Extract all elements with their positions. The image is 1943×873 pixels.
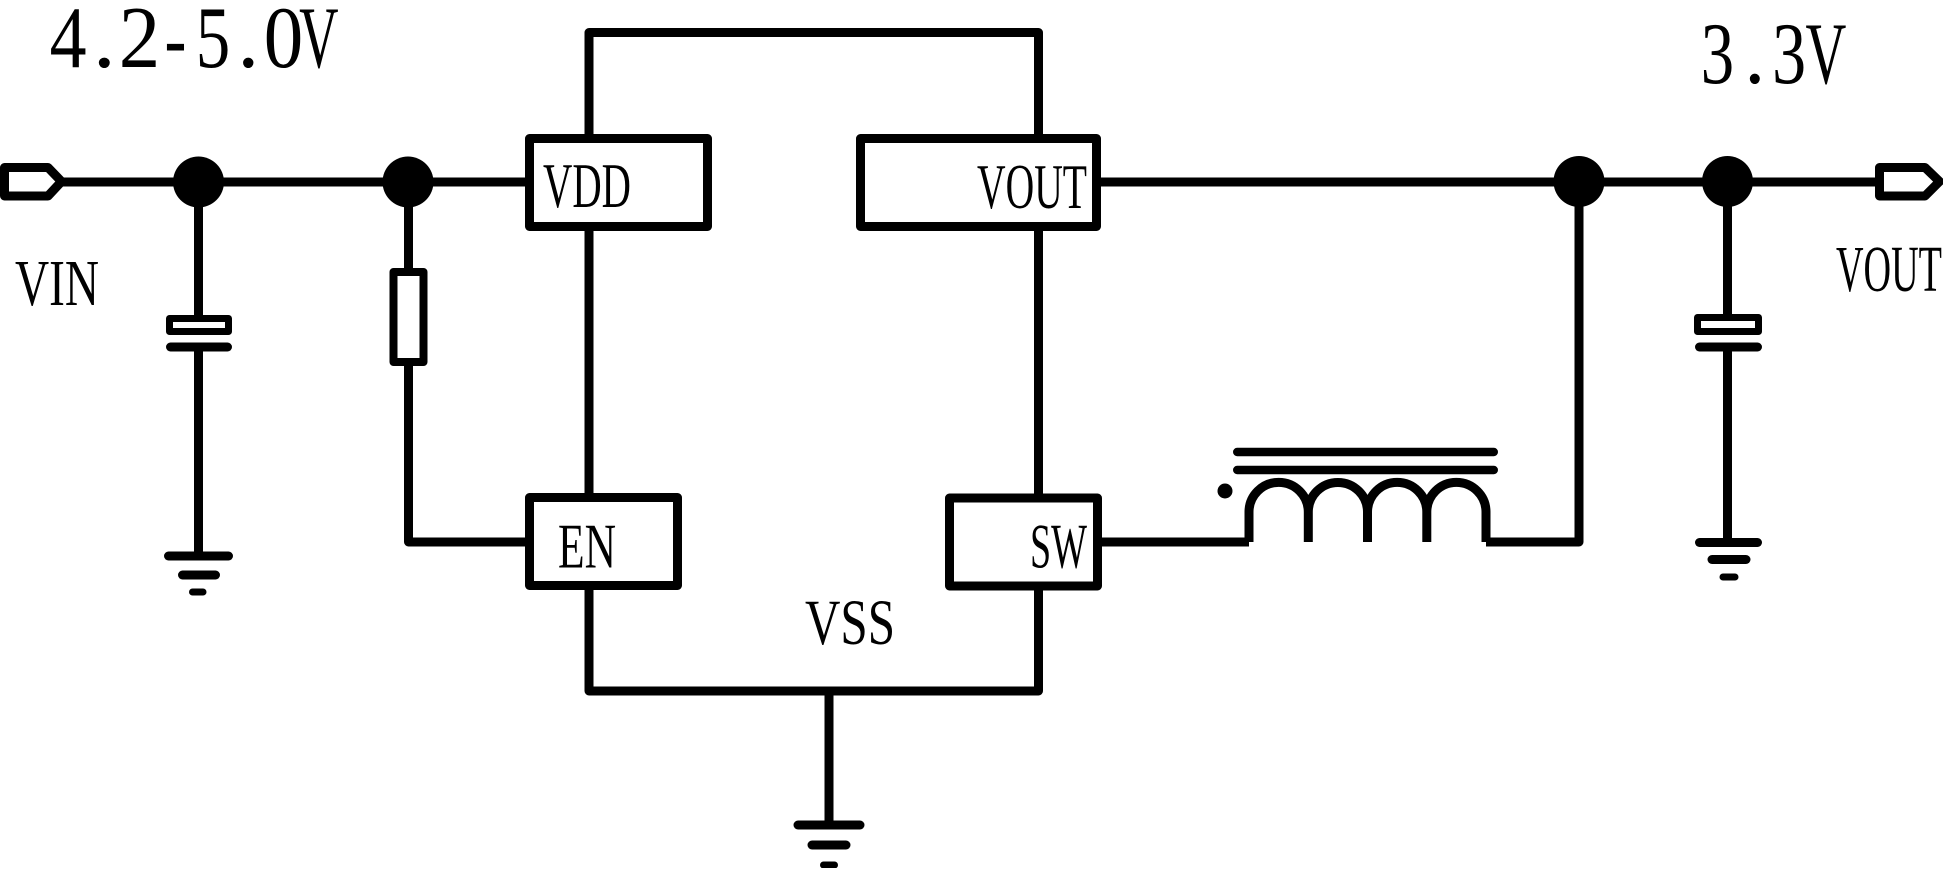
- inductor L1 core line 1: [1237, 448, 1494, 457]
- wire node A to node B: [198, 178, 408, 187]
- capacitor C2 bottom plate: [1700, 343, 1758, 352]
- wire SW pin to inductor L1: [1102, 538, 1249, 547]
- svg-text:EN: EN: [558, 512, 616, 582]
- ground symbol VSS: [798, 825, 860, 865]
- wire VDD to EN (IC left side): [585, 226, 594, 498]
- svg-text:.: .: [1744, 4, 1765, 102]
- wire node A down to capacitor C1: [194, 182, 203, 316]
- IC pin box EN: [530, 498, 678, 586]
- svg-text:4: 4: [50, 0, 87, 86]
- capacitor C2 top plate: [1698, 318, 1759, 332]
- output terminal VOUT: [1880, 168, 1940, 197]
- wire capacitor C1 to ground: [194, 351, 203, 552]
- IC pin box VOUT: [861, 139, 1097, 227]
- label 3.3V: [1701, 4, 1847, 103]
- inductor L1 core line 2: [1237, 466, 1494, 475]
- svg-text:V: V: [299, 0, 338, 86]
- ground symbol below C2: [1700, 543, 1758, 578]
- svg-text:VIN: VIN: [15, 247, 99, 320]
- wire VOUT to SW (IC right side): [1034, 226, 1043, 498]
- inductor L1 winding: [1249, 482, 1486, 542]
- svg-text:V: V: [1805, 6, 1846, 104]
- wire VOUT pin to node C and node D and terminal: [1101, 178, 1876, 187]
- capacitor C1 bottom plate: [171, 343, 228, 352]
- wire capacitor C2 to ground: [1723, 351, 1732, 540]
- inductor L1 phase dot: [1218, 484, 1233, 499]
- svg-text:.: .: [93, 0, 116, 87]
- svg-text:5: 5: [196, 0, 230, 87]
- wire VDD top rail to VOUT: [589, 33, 1039, 141]
- input terminal VIN: [5, 168, 62, 197]
- wire resistor R1 to EN pin: [409, 362, 528, 542]
- capacitor C1 top plate: [170, 319, 229, 332]
- svg-text:SW: SW: [1030, 512, 1087, 582]
- ground symbol below C1: [169, 556, 229, 592]
- node B junction dot: [383, 157, 434, 208]
- wire node B down to resistor R1: [404, 182, 413, 272]
- IC pin box SW: [950, 498, 1098, 586]
- wire VSS bottom rail EN to SW: [589, 585, 1039, 691]
- wire inductor L1 to node C: [1486, 182, 1579, 542]
- node D junction dot: [1702, 156, 1753, 207]
- svg-text:0: 0: [264, 0, 303, 87]
- svg-text:2: 2: [119, 0, 160, 87]
- svg-text:3: 3: [1772, 6, 1806, 103]
- wire terminal to node A: [62, 178, 199, 187]
- svg-text:VSS: VSS: [805, 587, 895, 659]
- svg-text:3: 3: [1701, 4, 1734, 102]
- resistor R1: [394, 272, 424, 362]
- wire node D down to capacitor C2: [1723, 182, 1732, 317]
- svg-text:VDD: VDD: [543, 151, 631, 221]
- wire VSS to ground: [825, 691, 834, 821]
- node C junction dot: [1554, 156, 1605, 207]
- node A junction dot: [173, 157, 224, 208]
- IC pin box VDD: [530, 139, 708, 227]
- label 4.2-5.0V: [50, 0, 339, 87]
- wire node B to VDD pin: [408, 178, 527, 187]
- svg-text:.: .: [237, 0, 259, 87]
- svg-text:-: -: [164, 0, 186, 87]
- svg-text:VOUT: VOUT: [1836, 233, 1942, 306]
- svg-text:VOUT: VOUT: [977, 151, 1087, 222]
